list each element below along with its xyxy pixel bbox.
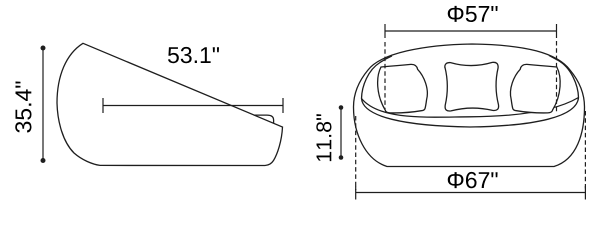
dimension line diameter 57in (385, 30, 557, 32)
extension line dashed right (556, 41, 558, 113)
seat cushion tab (254, 115, 274, 123)
bowl rim left stub (362, 56, 393, 99)
end tick left (384, 24, 386, 38)
right pillow (510, 64, 560, 113)
label 53.1" (168, 47, 219, 63)
seat front line (362, 98, 579, 118)
end dot bottom (41, 158, 46, 163)
bowl rim right stub (549, 55, 579, 97)
dimension line 35.4 vertical (41, 46, 46, 164)
bowl rim bottom arc (362, 98, 579, 128)
end dot top (41, 46, 46, 51)
label 35.4" rotated (15, 81, 31, 132)
end dot bottom (339, 155, 344, 160)
dimension phi67 bottom (356, 111, 586, 200)
end tick left (102, 98, 104, 113)
extension line dashed left (384, 42, 386, 109)
extension line dashed left (355, 116, 357, 190)
left pillow (378, 64, 428, 113)
label phi67 (448, 172, 498, 188)
chair side-view outline (57, 43, 283, 165)
dimension line diameter 67in (356, 192, 586, 194)
center pillow (445, 62, 499, 111)
sofa outer body (354, 44, 585, 167)
end tick right (282, 98, 284, 113)
end tick right (584, 186, 586, 200)
end tick right (556, 24, 558, 38)
dimension line 11.8in seat height (340, 108, 342, 158)
dimension line 53.1in width (103, 105, 283, 107)
end dot top (339, 105, 344, 110)
dimension phi57 top (385, 24, 557, 113)
extension line dashed right (584, 111, 586, 190)
dimension 11.8 vertical (339, 105, 344, 160)
end tick left (355, 186, 357, 200)
label phi57 (448, 6, 498, 22)
label 11.8" rotated (316, 114, 331, 161)
dimension line 35.4in height (42, 48, 44, 161)
